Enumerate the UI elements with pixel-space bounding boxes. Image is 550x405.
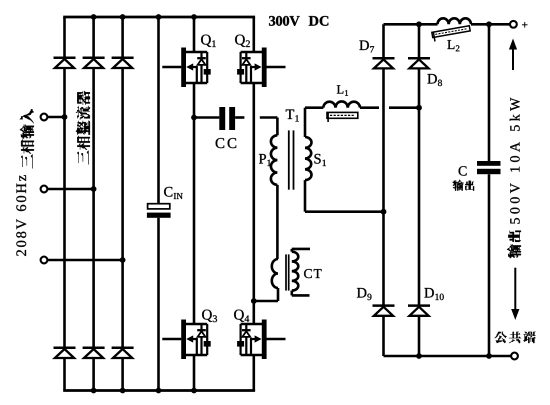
wire QA mid leg — [193, 83, 196, 324]
node rail bottom QA — [191, 388, 197, 394]
transistor Q2 — [237, 48, 285, 88]
diode rectifier top-2 — [83, 58, 105, 68]
node rail bottom leg3 — [120, 388, 126, 394]
wire CC left — [194, 116, 219, 119]
node D10 bottom junction — [416, 353, 422, 359]
capacitor CC — [219, 107, 235, 130]
terminal output common — [511, 353, 518, 360]
wire S1 bottom — [305, 180, 384, 212]
label three-phase rectifier — [76, 91, 90, 165]
core CT — [286, 254, 289, 290]
wire output top rail — [384, 23, 511, 26]
node L1 to D8/D10 junction — [416, 105, 422, 111]
label common terminal — [495, 332, 536, 343]
wire Q1 drain — [193, 17, 196, 52]
label CIN — [164, 187, 183, 199]
transistor Q3 — [162, 320, 210, 360]
diode rectifier top-3 — [112, 58, 134, 68]
inductor CT primary — [272, 259, 278, 288]
label Q1 — [201, 35, 216, 47]
wire phase A — [47, 116, 64, 119]
arrow output voltage up — [509, 39, 517, 71]
inductor L1 — [323, 101, 360, 107]
node rail top leg2 — [91, 14, 97, 20]
inductor CT secondary — [292, 252, 299, 291]
node rail top QA — [191, 14, 197, 20]
node CC left junction — [191, 115, 197, 121]
transistor Q4 — [237, 320, 285, 360]
label T1 — [286, 110, 299, 122]
wire CT secondary top stub — [292, 249, 310, 252]
wire L1 right (crossover) — [360, 106, 419, 109]
wire P1 bottom — [276, 185, 279, 259]
terminal output positive — [510, 21, 517, 28]
terminal phase B input — [41, 186, 48, 193]
core T1 — [289, 130, 294, 189]
label S1 — [314, 154, 326, 166]
diode D7 — [373, 58, 395, 68]
diode rectifier bottom-1 — [54, 348, 76, 358]
label C output — [459, 166, 467, 175]
label D9 — [357, 288, 372, 300]
wire bottom DC bus rail — [63, 389, 255, 392]
label CT — [304, 269, 321, 278]
label L2 — [447, 40, 459, 51]
arrow output voltage down — [511, 268, 519, 320]
inductor T1 secondary S1 — [305, 137, 312, 180]
label L1 — [337, 85, 348, 95]
label CC — [216, 138, 237, 148]
capacitor CIN — [147, 204, 171, 218]
label D10 — [424, 288, 443, 300]
node phase C junction — [120, 257, 126, 263]
wire top DC bus rail — [63, 16, 255, 19]
label plus — [522, 22, 527, 27]
diode rectifier bottom-3 — [112, 348, 134, 358]
label D7 — [359, 41, 374, 53]
diode D10 — [408, 306, 430, 316]
transistor Q1 — [162, 48, 210, 88]
wire phase C — [47, 259, 122, 262]
diode D8 — [408, 58, 430, 68]
wire D7/D9 leg — [382, 24, 385, 356]
node rail top CIN — [156, 14, 162, 20]
wire rectifier leg 3 — [121, 17, 124, 391]
terminal phase C input — [41, 257, 48, 264]
node output cap bottom junction — [486, 353, 492, 359]
node phase A junction — [62, 114, 68, 120]
wire rectifier leg 2 — [92, 17, 95, 391]
wire QB mid leg — [253, 83, 256, 324]
node output cap top junction — [486, 21, 492, 27]
diode D9 — [373, 306, 395, 316]
node S1-bottom to D7/D9 junction — [381, 209, 387, 215]
label input rating — [16, 175, 26, 256]
label Q4 — [234, 310, 249, 322]
core L2 — [432, 26, 471, 42]
wire phase B — [47, 188, 93, 191]
label C output chinese — [453, 180, 474, 191]
core L1 — [327, 112, 358, 122]
wire CIN leg — [157, 17, 160, 391]
wire Q3 source — [193, 355, 196, 391]
wire Q4 source — [253, 355, 256, 391]
wire CC right — [235, 116, 244, 119]
label three-phase input — [20, 109, 34, 168]
wire Q2 drain — [253, 17, 256, 52]
node rail bottom CIN — [156, 388, 162, 394]
inductor T1 primary P1 — [271, 135, 278, 185]
label Q2 — [235, 35, 250, 47]
wire CT hook — [254, 288, 278, 301]
node rail bottom leg2 — [91, 388, 97, 394]
wire CT secondary bottom stub — [292, 291, 310, 296]
label output chinese rotated — [507, 231, 521, 258]
node phase B junction — [91, 186, 97, 192]
capacitor C output — [477, 161, 501, 174]
node D8 top junction — [416, 21, 422, 27]
terminal phase A input — [41, 114, 48, 121]
label D8 — [427, 74, 442, 86]
wire D8/D10 leg — [418, 24, 421, 356]
label Q3 — [202, 310, 217, 323]
label 300V DC — [269, 16, 328, 26]
wire CC to P1 (crossover) — [260, 118, 278, 136]
wire S1 top — [305, 108, 323, 137]
label P1 — [259, 154, 271, 166]
diode rectifier bottom-2 — [83, 348, 105, 358]
inductor L2 — [438, 18, 472, 24]
node CT return junction — [251, 298, 257, 304]
label output rating — [510, 98, 520, 224]
diode rectifier top-1 — [54, 58, 76, 68]
wire rectifier leg 1 — [63, 17, 66, 391]
wire output bottom rail — [384, 355, 512, 358]
wire output cap leg — [488, 24, 491, 356]
node rail top leg3 — [120, 14, 126, 20]
